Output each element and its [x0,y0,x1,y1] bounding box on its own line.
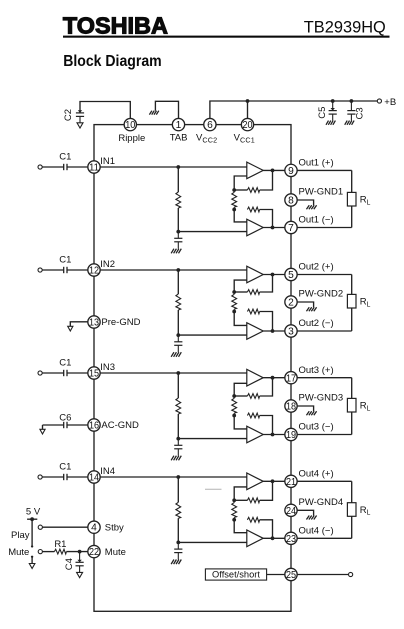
bias resistor (ch1) [177,167,179,192]
svg-text:C5: C5 [317,107,328,119]
wire out+ to load (ch4) [291,480,352,482]
op-amp A3a [247,369,263,386]
pin 4 Stby [88,521,100,533]
svg-text:IN1: IN1 [100,156,115,167]
svg-text:C4: C4 [64,558,75,570]
ground C5 [333,121,336,125]
wire amp out- (ch2) [263,330,291,332]
svg-text:17: 17 [286,373,296,384]
pin 24 PW-GND4 [285,504,297,516]
capacitor C1 (ch1) [42,166,64,168]
pin 6 VCC2 [204,118,216,130]
pin 20 VCC1 [241,118,253,130]
svg-text:AC-GND: AC-GND [101,420,139,431]
feedback resistor top (ch1) [234,189,247,191]
svg-text:13: 13 [89,318,99,329]
wire offset block to pin 25 [267,574,291,576]
terminal offset output [349,572,353,576]
pin 7 Out1- [285,221,297,233]
wire input to amp (ch3) [94,372,247,374]
svg-text:6: 6 [207,120,213,131]
input terminal IN2 [38,268,42,272]
svg-text:Play: Play [11,530,30,541]
bias resistor (ch4) [177,477,179,502]
svg-text:Pre-GND: Pre-GND [101,317,140,328]
bias capacitor (ch4) [177,542,179,549]
pin 1 TAB [172,118,184,130]
svg-text:Stby: Stby [105,523,124,534]
wire out+ to load (ch1) [291,169,352,171]
pin 22 Mute [88,545,100,557]
wire out+ to load (ch2) [291,274,352,276]
node feedback top (ch4) [232,498,236,502]
input terminal IN4 [38,475,42,479]
op-amp A1b [247,219,263,236]
terminal +B [377,99,381,103]
node bias tap (ch1) [176,165,180,169]
svg-text:5 V: 5 V [26,506,41,517]
wire out- to load (ch1) [291,227,352,229]
feedback resistor top (ch4) [234,499,247,501]
svg-text:PW-GND2: PW-GND2 [299,289,344,300]
feedback resistor top (ch3) [234,395,247,397]
op-amp A2b [247,323,263,340]
feedback resistor vertical (ch2) [233,292,235,294]
feedback bus stubs (ch4) [234,487,247,500]
svg-text:PW-GND3: PW-GND3 [299,393,344,404]
feedback bus stubs (ch3) [234,383,247,396]
wire C1 to pin (ch3) [67,372,94,374]
Pre-GND ground arrow [70,322,94,327]
bias capacitor (ch1) [177,232,179,239]
pin 5 Out2+ [285,268,297,280]
wire out- to load (ch2) [291,330,352,332]
svg-text:+B: +B [384,97,396,108]
load RL (ch1) [351,170,353,227]
pin 18 PW-GND3 [285,400,297,412]
node bias tap (ch4) [176,475,180,479]
svg-text:10: 10 [125,120,135,131]
PW-GND4 ground [291,510,314,515]
svg-text:C1: C1 [59,357,71,368]
svg-text:TB2939HQ: TB2939HQ [304,17,386,36]
pin 25 offset [285,568,297,580]
switch contact Mute [38,550,42,554]
capacitor C6 [43,424,64,426]
wire amp out- (ch1) [263,227,291,229]
svg-text:L: L [367,510,371,517]
svg-text:20: 20 [242,120,252,131]
wire VCC rail to +B [210,101,377,125]
offset/short block [205,569,266,580]
svg-text:R1: R1 [54,539,66,550]
svg-text:7: 7 [288,223,294,234]
svg-text:Out4 (−): Out4 (−) [299,525,334,536]
node bias bottom (ch3) [176,437,180,441]
node bias bottom (ch1) [176,230,180,234]
svg-text:C1: C1 [59,151,71,162]
wire amp out+ (ch1) [263,169,291,171]
bias capacitor (ch3) [177,439,179,446]
wire C2 to pin 10 Ripple [80,102,130,125]
input terminal IN1 [38,165,42,169]
node bias bottom (ch4) [176,541,180,545]
svg-text:8: 8 [288,196,294,207]
svg-text:C2: C2 [63,109,74,121]
PW-GND3 ground [291,406,314,411]
feedback resistor bottom (ch2) [247,309,259,314]
svg-text:Out2 (+): Out2 (+) [299,262,334,273]
bias resistor (ch3) [177,373,179,398]
node feedback top (ch2) [232,290,236,294]
pin 8 PW-GND1 [285,194,297,206]
svg-text:Out2 (−): Out2 (−) [299,318,334,329]
svg-text:Mute: Mute [105,547,126,558]
resistor R1 [42,551,54,553]
capacitor C5 [332,101,334,111]
svg-text:L: L [367,405,371,412]
svg-text:24: 24 [286,506,296,517]
pin 15 IN3 [88,367,100,379]
pin 17 Out3+ [285,372,297,384]
pin 21 Out4+ [285,475,297,487]
svg-text:Out4 (+): Out4 (+) [299,468,334,479]
input terminal IN3 [38,371,42,375]
node feedback top (ch1) [232,188,236,192]
svg-text:C3: C3 [354,107,365,119]
feedback resistor top (ch2) [234,291,247,293]
svg-text:L: L [367,199,371,206]
svg-text:Mute: Mute [8,547,29,558]
op-amp A3b [247,426,263,443]
TAB ground wire [155,101,178,124]
PW-GND2 ground [291,302,314,307]
node R1 C4 [78,550,82,554]
wire amp out- (ch3) [263,434,291,436]
wire C1 to pin (ch2) [67,269,94,271]
pin 3 Out2- [285,325,297,337]
feedback resistor vertical (ch4) [233,500,235,502]
wire input to amp (ch2) [94,269,247,271]
svg-text:TAB: TAB [170,133,188,144]
svg-text:Out1 (+): Out1 (+) [299,158,334,169]
svg-text:PW-GND4: PW-GND4 [299,497,344,508]
svg-text:14: 14 [89,473,99,484]
node feedback bottom (ch1) [232,208,236,212]
op-amp A4b [247,530,263,547]
pin 23 Out4- [285,532,297,544]
load RL (ch3) [351,378,353,435]
svg-text:16: 16 [89,421,99,432]
svg-text:Out3 (−): Out3 (−) [299,422,334,433]
feedback resistor bottom (ch1) [247,207,259,212]
svg-text:3: 3 [288,327,294,338]
ground bias cap (ch1) [179,249,182,254]
wire bias node to lower amp (ch2) [178,334,247,336]
op-amp A4a [247,473,263,490]
wire amp out+ (ch3) [263,377,291,379]
header rule [63,36,390,38]
pin 9 Out1+ [285,164,297,176]
ground bias cap (ch4) [179,560,182,565]
PW-GND1 ground [291,200,314,205]
svg-text:2: 2 [288,298,294,309]
pin 19 Out3- [285,428,297,440]
svg-text:Out1 (−): Out1 (−) [299,215,334,226]
svg-text:C1: C1 [59,461,71,472]
svg-text:12: 12 [89,266,99,277]
wire amp out+ (ch4) [263,480,291,482]
wire out- to load (ch3) [291,434,352,436]
switch lower contact to ground [31,556,33,558]
node feedback bottom (ch3) [232,414,236,418]
capacitor C1 (ch3) [42,372,64,374]
svg-text:19: 19 [286,430,296,441]
svg-text:Ripple: Ripple [118,133,145,144]
bias resistor (ch2) [177,270,179,294]
pin 16 AC-GND [88,419,100,431]
op-amp A1a [247,162,263,179]
feedback resistor bottom (ch3) [247,413,259,418]
feedback resistor vertical (ch1) [233,190,235,192]
svg-text:5: 5 [288,270,294,281]
ground C6 arrow [42,425,44,429]
wire amp out+ (ch2) [263,274,291,276]
wire to pin 4 Stby [42,526,94,528]
node bias bottom (ch2) [176,333,180,337]
load RL (ch2) [351,275,353,332]
svg-text:1: 1 [176,120,182,131]
feedback resistor bottom (ch4) [247,517,259,522]
feedback resistor vertical (ch3) [233,396,235,398]
svg-text:18: 18 [286,402,296,413]
wire switch common [31,519,33,545]
svg-text:25: 25 [286,570,296,581]
svg-text:C1: C1 [59,254,71,265]
svg-text:Offset/short: Offset/short [212,570,260,580]
wire C1 to pin (ch1) [67,166,94,168]
pin 12 IN2 [88,264,100,276]
pin 11 IN1 [88,161,100,173]
wire bias node to lower amp (ch4) [178,541,247,543]
wire amp out- (ch4) [263,537,291,539]
wire input to amp (ch4) [94,476,247,478]
capacitor C3 [350,101,352,111]
pin 2 PW-GND2 [285,296,297,308]
5V rail [27,518,37,520]
node feedback bottom (ch4) [232,518,236,522]
svg-text:VCC2: VCC2 [196,133,217,145]
ground C3 [352,121,355,125]
node bias tap (ch2) [176,268,180,272]
svg-text:L: L [367,301,371,308]
node bias tap (ch3) [176,371,180,375]
svg-text:9: 9 [288,166,294,177]
load RL (ch4) [351,481,353,538]
wire bias node to lower amp (ch3) [178,438,247,440]
wire out+ to load (ch3) [291,377,352,379]
pin 10 Ripple [124,118,136,130]
node feedback top (ch3) [232,394,236,398]
feedback bus stubs (ch1) [234,176,247,190]
svg-text:IN2: IN2 [100,259,115,270]
svg-text:15: 15 [89,369,99,380]
pin 14 IN4 [88,471,100,483]
svg-text:VCC1: VCC1 [234,133,255,145]
wire out- to load (ch4) [291,537,352,539]
svg-text:Block Diagram: Block Diagram [63,53,162,70]
feedback bus stubs (ch2) [234,280,247,292]
svg-text:C6: C6 [59,413,71,424]
svg-text:23: 23 [286,534,296,545]
svg-text:Out3 (+): Out3 (+) [299,365,334,376]
capacitor C4 [79,552,81,563]
svg-text:4: 4 [91,523,97,534]
svg-text:22: 22 [89,547,99,558]
ground TAB [156,111,159,115]
svg-text:21: 21 [286,477,296,488]
wire pin 20 stub [247,101,249,125]
ground bias cap (ch2) [179,352,182,357]
svg-text:IN4: IN4 [100,466,115,477]
capacitor C2 [76,112,84,114]
node feedback bottom (ch2) [232,310,236,314]
capacitor C1 (ch4) [42,476,64,478]
switch contact Stby [38,525,42,529]
op-amp A2a [247,266,263,283]
svg-text:IN3: IN3 [100,362,115,373]
svg-text:11: 11 [89,163,99,174]
faint mark ch4 [205,488,222,490]
IC block outline [94,125,291,612]
wire C1 to pin (ch4) [67,476,94,478]
wire bias node to lower amp (ch1) [178,231,247,233]
svg-text:PW-GND1: PW-GND1 [299,187,344,198]
capacitor C1 (ch2) [42,269,64,271]
ground bias cap (ch3) [179,456,182,461]
bias capacitor (ch2) [177,335,179,342]
wire input to amp (ch1) [94,166,247,168]
node VCC rail junctions [246,99,250,103]
svg-text:TOSHIBA: TOSHIBA [63,13,168,39]
wire pin 25 to terminal [291,574,349,576]
pin 13 Pre-GND [88,316,100,328]
